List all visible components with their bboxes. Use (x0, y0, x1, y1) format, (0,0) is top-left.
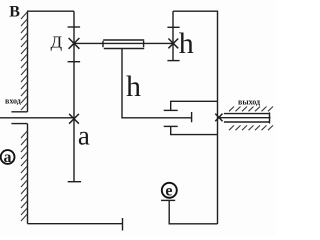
svg-text:В: В (9, 4, 20, 21)
svg-text:h: h (179, 27, 194, 60)
svg-text:a: a (78, 120, 90, 150)
svg-text:е: е (165, 182, 172, 199)
svg-text:а: а (4, 149, 12, 166)
svg-text:выход: выход (238, 98, 260, 107)
svg-text:Д: Д (51, 33, 63, 52)
svg-text:вход: вход (5, 96, 21, 105)
svg-text:h: h (126, 70, 141, 103)
